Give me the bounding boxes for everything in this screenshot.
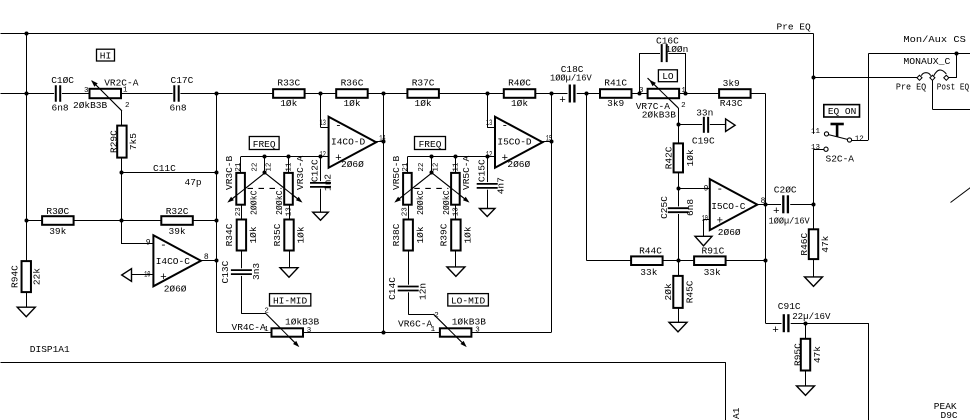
svg-text:-: - [335,121,342,133]
svg-text:1: 1 [264,326,269,334]
svg-text:2Ø6Ø: 2Ø6Ø [341,159,364,170]
svg-text:9: 9 [704,184,709,193]
svg-text:47p: 47p [185,177,202,188]
svg-text:12: 12 [320,151,327,160]
svg-text:39k: 39k [49,226,66,237]
svg-text:12: 12 [855,136,864,144]
svg-text:3: 3 [639,87,644,95]
svg-text:3: 3 [475,327,480,335]
svg-text:12n: 12n [418,283,429,300]
svg-text:R38C: R38C [391,223,402,246]
svg-text:8: 8 [761,197,766,206]
svg-text:3: 3 [307,327,312,335]
svg-text:R91C: R91C [702,246,725,257]
svg-text:R3ØC: R3ØC [46,206,69,217]
svg-text:2: 2 [264,307,269,315]
svg-text:+: + [160,272,167,284]
svg-text:C13C: C13C [220,260,231,283]
svg-text:1Øk: 1Øk [511,98,528,109]
svg-text:1: 1 [681,87,686,95]
svg-text:I4CO-D: I4CO-D [331,136,366,147]
svg-text:LO-MID: LO-MID [451,295,486,306]
svg-text:-: - [160,240,167,252]
svg-text:R39C: R39C [439,223,450,246]
svg-text:DISP1A1: DISP1A1 [30,344,70,355]
svg-text:12: 12 [486,151,493,160]
svg-text:1Øk: 1Øk [415,98,432,109]
svg-text:VR2C-A: VR2C-A [104,78,139,89]
svg-text:+: + [773,206,780,218]
svg-text:R32C: R32C [166,206,189,217]
svg-text:2: 2 [434,312,439,320]
svg-text:+: + [502,153,509,165]
svg-text:1Øk: 1Øk [415,226,426,243]
svg-text:2ØØkC: 2ØØkC [441,190,452,215]
svg-text:6n8: 6n8 [685,199,696,216]
svg-text:1ØkB3B: 1ØkB3B [452,317,487,328]
svg-text:FREQ: FREQ [253,139,276,150]
svg-text:2Øk: 2Øk [663,283,674,300]
svg-text:1: 1 [123,87,128,95]
svg-text:1Øk: 1Øk [248,226,259,243]
svg-text:A1: A1 [731,407,742,419]
svg-text:6n8: 6n8 [170,103,187,114]
svg-text:R29C: R29C [109,130,120,153]
svg-text:VR6C-A: VR6C-A [398,319,433,330]
svg-text:33k: 33k [704,267,721,278]
svg-text:1Øk: 1Øk [685,149,696,166]
svg-text:2ØkB3B: 2ØkB3B [642,109,677,120]
svg-text:+: + [772,325,779,337]
svg-text:Mon/Aux CS: Mon/Aux CS [903,34,966,45]
svg-text:22µ/16V: 22µ/16V [792,311,831,322]
svg-text:R46C: R46C [799,233,810,256]
svg-text:22: 22 [251,163,259,172]
svg-text:2: 2 [125,102,130,110]
svg-text:1ØkB3B: 1ØkB3B [285,317,320,328]
svg-text:14: 14 [379,134,386,143]
svg-text:22: 22 [418,163,426,172]
svg-text:12: 12 [265,163,273,172]
svg-text:8: 8 [204,253,209,262]
svg-text:-: - [717,184,724,196]
svg-text:21: 21 [235,162,243,172]
svg-text:12: 12 [432,163,440,172]
svg-text:1Øk: 1Øk [343,98,360,109]
svg-text:R36C: R36C [341,78,364,89]
svg-text:R42C: R42C [663,146,674,169]
svg-text:I5CO-C: I5CO-C [711,201,746,212]
svg-text:R95C: R95C [792,343,803,366]
svg-text:R44C: R44C [639,246,662,257]
svg-text:2ØØkC: 2ØØkC [415,190,426,215]
svg-text:R45C: R45C [685,280,696,303]
svg-text:33k: 33k [640,267,657,278]
svg-text:R35C: R35C [272,223,283,246]
svg-text:C11C: C11C [153,163,176,174]
svg-text:47k: 47k [820,235,831,252]
svg-text:3n3: 3n3 [251,263,262,280]
svg-text:23: 23 [235,207,243,217]
svg-text:1ØØµ/16V: 1ØØµ/16V [550,73,592,84]
svg-text:22k: 22k [32,268,43,285]
svg-text:2: 2 [681,102,686,110]
svg-text:23: 23 [402,207,410,217]
svg-text:10: 10 [702,214,709,223]
svg-text:C25C: C25C [659,196,670,219]
svg-text:I4CO-C: I4CO-C [156,256,191,267]
svg-text:13: 13 [453,207,461,217]
svg-text:+: + [717,216,724,228]
svg-text:MONAUX_C: MONAUX_C [903,56,950,67]
svg-text:VR3C-B: VR3C-B [224,155,235,190]
svg-text:C17C: C17C [171,75,194,86]
svg-text:S2C-A: S2C-A [826,153,855,164]
svg-text:1Øk: 1Øk [463,226,474,243]
svg-text:47k: 47k [812,346,823,363]
svg-text:LO: LO [662,71,674,82]
svg-text:C14C: C14C [387,277,398,300]
svg-text:39k: 39k [169,226,186,237]
svg-text:R37C: R37C [412,78,435,89]
svg-text:VR3C-A: VR3C-A [295,155,306,190]
svg-text:2Ø6Ø: 2Ø6Ø [718,227,741,238]
svg-text:7k5: 7k5 [128,133,139,150]
svg-text:2Ø6Ø: 2Ø6Ø [507,159,530,170]
svg-text:EQ ON: EQ ON [828,106,857,117]
svg-text:2Ø6Ø: 2Ø6Ø [164,284,187,295]
svg-text:10: 10 [144,270,151,279]
svg-text:1: 1 [431,326,436,334]
svg-text:6n8: 6n8 [52,103,69,114]
svg-text:C1ØC: C1ØC [51,75,74,86]
svg-text:13: 13 [286,207,294,217]
svg-text:13: 13 [811,144,821,152]
svg-text:Post EQ: Post EQ [937,81,970,92]
svg-text:1Øk: 1Øk [296,226,307,243]
svg-text:+: + [335,153,342,165]
svg-text:15: 15 [546,134,553,143]
svg-text:VR4C-A: VR4C-A [232,322,267,333]
svg-text:I5CO-D: I5CO-D [497,136,532,147]
svg-text:13: 13 [320,119,327,128]
svg-text:33n: 33n [696,107,713,118]
svg-text:9: 9 [146,238,151,247]
svg-text:21: 21 [402,162,410,172]
svg-text:C19C: C19C [692,135,715,146]
svg-text:2ØØkC: 2ØØkC [248,190,259,215]
svg-text:2ØØkC: 2ØØkC [274,190,285,215]
svg-text:R33C: R33C [277,78,300,89]
svg-text:1ØØn: 1ØØn [666,44,689,55]
svg-text:C12C: C12C [309,159,320,182]
svg-text:11: 11 [811,128,821,136]
svg-text:FREQ: FREQ [419,139,442,150]
svg-text:HI-MID: HI-MID [273,295,308,306]
svg-text:4n7: 4n7 [496,177,507,194]
svg-text:+: + [559,95,566,107]
svg-text:R41C: R41C [604,78,627,89]
svg-text:11: 11 [285,162,293,172]
svg-text:HI: HI [100,51,111,62]
svg-text:Pre EQ: Pre EQ [777,22,812,33]
svg-text:2ØkB3B: 2ØkB3B [73,100,108,111]
svg-text:C2ØC: C2ØC [774,184,797,195]
svg-text:R34C: R34C [224,223,235,246]
svg-text:1Øk: 1Øk [280,98,297,109]
svg-text:R94C: R94C [10,265,21,288]
svg-text:R43C: R43C [720,98,743,109]
svg-text:1n2: 1n2 [322,174,333,191]
svg-text:11: 11 [452,162,460,172]
svg-text:Pre EQ: Pre EQ [896,81,927,92]
svg-text:VR5C-A: VR5C-A [461,155,472,190]
svg-text:C15C: C15C [477,159,488,182]
svg-text:3k9: 3k9 [607,98,624,109]
svg-text:R4ØC: R4ØC [508,78,531,89]
svg-text:13: 13 [486,119,493,128]
svg-text:3k9: 3k9 [723,78,740,89]
svg-text:3: 3 [84,87,89,95]
svg-text:-: - [502,121,509,133]
svg-text:VR5C-B: VR5C-B [391,155,402,190]
svg-text:D9C: D9C [941,410,958,420]
